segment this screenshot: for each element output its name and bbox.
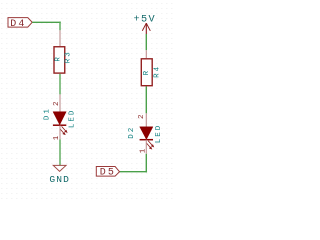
wire D4 to node A (horizontal) (32, 21, 61, 23)
D1 pin 2 (cathode, top) (59, 94, 61, 111)
svg-text:R: R (54, 55, 62, 62)
D2 pin 1 (anode, bottom) (145, 140, 147, 154)
svg-text:1: 1 (139, 148, 147, 153)
resistor R4 (141, 59, 161, 86)
power +5V arrow (142, 23, 146, 31)
power +5V (134, 14, 157, 34)
global label D4 outline (8, 18, 32, 28)
LED D1 emission arrows (60, 126, 67, 134)
global label D5 outline (96, 167, 119, 177)
LED D2 emission arrows (146, 141, 153, 149)
R4 pin 1 (top) (145, 50, 147, 58)
global label D5 (96, 167, 119, 179)
wire +5V to R4 (145, 34, 147, 50)
D1 pin 1 (anode, bottom) (59, 125, 61, 139)
R3 pin 1 (top) (59, 30, 61, 46)
svg-text:LED: LED (155, 124, 163, 144)
svg-text:R: R (143, 69, 151, 76)
ground triangle (53, 165, 66, 171)
resistor R3 (54, 47, 73, 73)
svg-text:D4: D4 (10, 19, 26, 30)
LED D2 triangle (140, 127, 153, 140)
wire node B to D5 (horizontal) (120, 171, 148, 173)
LED D1 triangle (53, 112, 66, 125)
resistor R4 body (141, 59, 152, 86)
D2 pin 2 (cathode, top) (145, 113, 147, 127)
resistor R3 body (54, 47, 65, 73)
svg-text:+5V: +5V (134, 14, 157, 25)
svg-text:2: 2 (53, 101, 61, 106)
wire R3 to D1 (59, 74, 61, 95)
svg-text:2: 2 (138, 114, 146, 119)
svg-text:R4: R4 (153, 65, 161, 78)
LED D1 (43, 107, 76, 134)
svg-text:GND: GND (49, 174, 70, 185)
svg-text:D5: D5 (100, 168, 116, 179)
wire D1 to GND (59, 139, 61, 165)
svg-text:LED: LED (69, 109, 77, 129)
wire node A down to R3 pin 1 (59, 22, 61, 31)
ground GND (49, 165, 70, 185)
wire R4 to D2 (145, 86, 147, 113)
svg-text:D2: D2 (128, 126, 136, 139)
LED D2 cathode bar (140, 139, 153, 141)
wire D2 down to node B (vertical) (145, 154, 147, 173)
LED D2 (128, 124, 163, 149)
svg-text:D1: D1 (43, 107, 51, 120)
LED D1 cathode bar (53, 124, 66, 126)
global label D4 (8, 18, 32, 30)
svg-text:R3: R3 (65, 50, 73, 63)
